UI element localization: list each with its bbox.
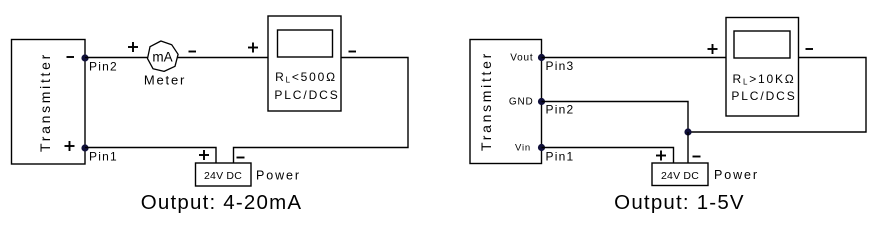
- svg-text:Vout: Vout: [510, 53, 533, 64]
- plus sign before meter: [128, 42, 138, 52]
- node Pin2 (right transmitter): [538, 98, 545, 105]
- svg-text:Transmitter: Transmitter: [478, 51, 494, 151]
- transmitter U1 (left): [12, 40, 86, 165]
- svg-text:24V DC: 24V DC: [204, 170, 242, 182]
- wire: right PLC output loop to junction: [688, 58, 866, 133]
- wire: PLC output loop to power supply -: [234, 58, 409, 164]
- wire: Pin1/Vin to power +: [542, 148, 674, 164]
- svg-text:Pin2: Pin2: [89, 60, 118, 74]
- wire: Pin2 to PLC input: [85, 57, 268, 59]
- node Pin1 (left transmitter): [81, 144, 88, 151]
- junction node: [684, 128, 691, 135]
- minus sign after meter: [189, 51, 197, 53]
- minus sign at right power -: [693, 156, 701, 158]
- svg-text:mA: mA: [152, 50, 172, 65]
- plus sign at right PLC +: [708, 44, 718, 54]
- minus sign at U1 Pin2: [67, 56, 75, 58]
- svg-text:Power: Power: [714, 168, 759, 182]
- svg-text:Pin1: Pin1: [546, 150, 575, 164]
- svg-text:Meter: Meter: [144, 73, 186, 88]
- svg-text:Pin1: Pin1: [89, 150, 118, 164]
- svg-text:Vin: Vin: [515, 143, 531, 154]
- wire: junction to power -: [687, 132, 689, 163]
- plus sign at PLC + terminal: [248, 43, 258, 53]
- minus sign at right PLC -: [806, 48, 814, 50]
- svg-text:Power: Power: [256, 169, 301, 183]
- wire: Pin1 to power supply +: [85, 148, 216, 164]
- power supply PS2 24V DC (right): [652, 163, 708, 186]
- minus sign at PLC - terminal: [349, 51, 357, 53]
- node Pin3 (right transmitter): [538, 54, 545, 61]
- wire: Pin2/GND to junction: [542, 102, 689, 133]
- svg-text:RL<500Ω: RL<500Ω: [275, 70, 337, 85]
- svg-text:Pin3: Pin3: [546, 59, 575, 73]
- svg-text:PLC/DCS: PLC/DCS: [274, 88, 339, 102]
- svg-text:GND: GND: [509, 97, 534, 108]
- node Pin2 (left transmitter): [81, 54, 88, 61]
- minus sign at power -: [237, 157, 245, 159]
- wire: Pin3 to PLC input: [542, 57, 727, 59]
- PLC/DCS U4 (right): [726, 18, 799, 117]
- svg-text:Output: 1-5V: Output: 1-5V: [614, 191, 745, 214]
- power supply PS1 24V DC (left): [196, 163, 252, 186]
- svg-text:Pin2: Pin2: [546, 103, 575, 117]
- transmitter U3 (right): [470, 40, 542, 164]
- plus sign at right power +: [656, 151, 666, 161]
- PLC/DCS U2 (left): [268, 16, 341, 111]
- svg-text:RL>10KΩ: RL>10KΩ: [732, 72, 795, 87]
- node Pin1 (right transmitter): [538, 144, 545, 151]
- ammeter M1: [148, 41, 179, 71]
- plus sign at power +: [199, 150, 209, 160]
- plus sign at U1 Pin1: [65, 141, 75, 151]
- svg-text:PLC/DCS: PLC/DCS: [731, 89, 796, 103]
- svg-text:Output: 4-20mA: Output: 4-20mA: [141, 191, 303, 214]
- svg-text:Transmitter: Transmitter: [37, 52, 53, 152]
- svg-text:24V DC: 24V DC: [661, 170, 699, 182]
